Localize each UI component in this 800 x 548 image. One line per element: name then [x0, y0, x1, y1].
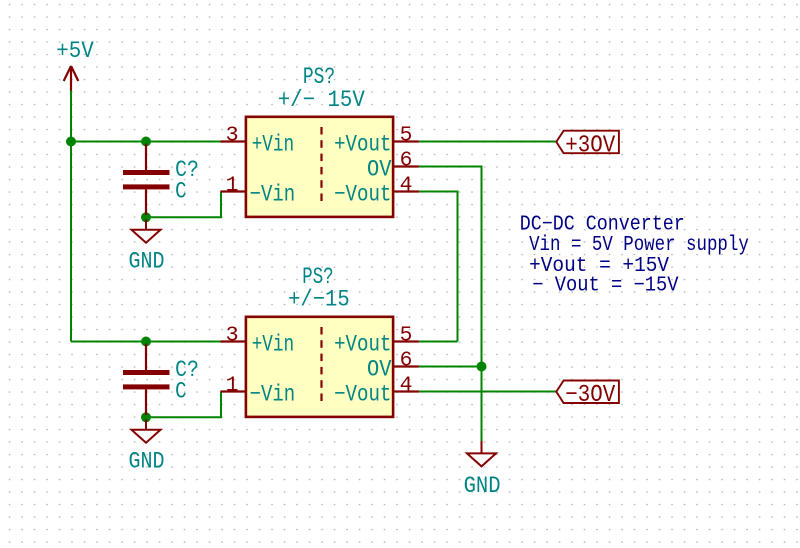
svg-text:6: 6 — [400, 150, 413, 173]
svg-text:GND: GND — [129, 448, 165, 474]
svg-text:−Vout: −Vout — [334, 381, 391, 407]
svg-text:Vin = 5V Power supply: Vin = 5V Power supply — [529, 234, 749, 257]
svg-text:1: 1 — [226, 374, 239, 397]
svg-text:+Vin: +Vin — [252, 331, 294, 357]
svg-text:GND: GND — [129, 248, 165, 274]
svg-text:−Vin: −Vin — [250, 181, 296, 207]
svg-text:−Vin: −Vin — [250, 381, 296, 407]
svg-text:+Vout: +Vout — [334, 131, 391, 157]
svg-text:+5V: +5V — [56, 38, 94, 64]
svg-text:5: 5 — [400, 124, 413, 147]
svg-text:GND: GND — [464, 473, 501, 499]
svg-text:3: 3 — [226, 124, 239, 147]
svg-text:4: 4 — [400, 175, 413, 198]
svg-text:5: 5 — [400, 324, 413, 347]
svg-text:3: 3 — [226, 324, 239, 347]
svg-text:C: C — [175, 178, 187, 204]
svg-text:4: 4 — [400, 375, 413, 398]
svg-text:C: C — [175, 378, 187, 404]
svg-text:+Vout: +Vout — [334, 331, 391, 357]
svg-text:+3OV: +3OV — [565, 132, 616, 159]
svg-text:6: 6 — [400, 350, 413, 373]
svg-text:+/−15: +/−15 — [288, 287, 350, 313]
svg-text:PS?: PS? — [303, 64, 335, 90]
svg-text:+/− 15V: +/− 15V — [278, 87, 365, 113]
svg-text:−Vout: −Vout — [334, 181, 391, 207]
svg-text:−3OV: −3OV — [565, 382, 616, 409]
svg-text:OV: OV — [367, 356, 392, 382]
svg-text:+Vin: +Vin — [252, 131, 294, 157]
svg-text:1: 1 — [226, 174, 239, 197]
svg-text:OV: OV — [367, 156, 392, 182]
svg-text:− Vout = −15V: − Vout = −15V — [532, 275, 679, 298]
